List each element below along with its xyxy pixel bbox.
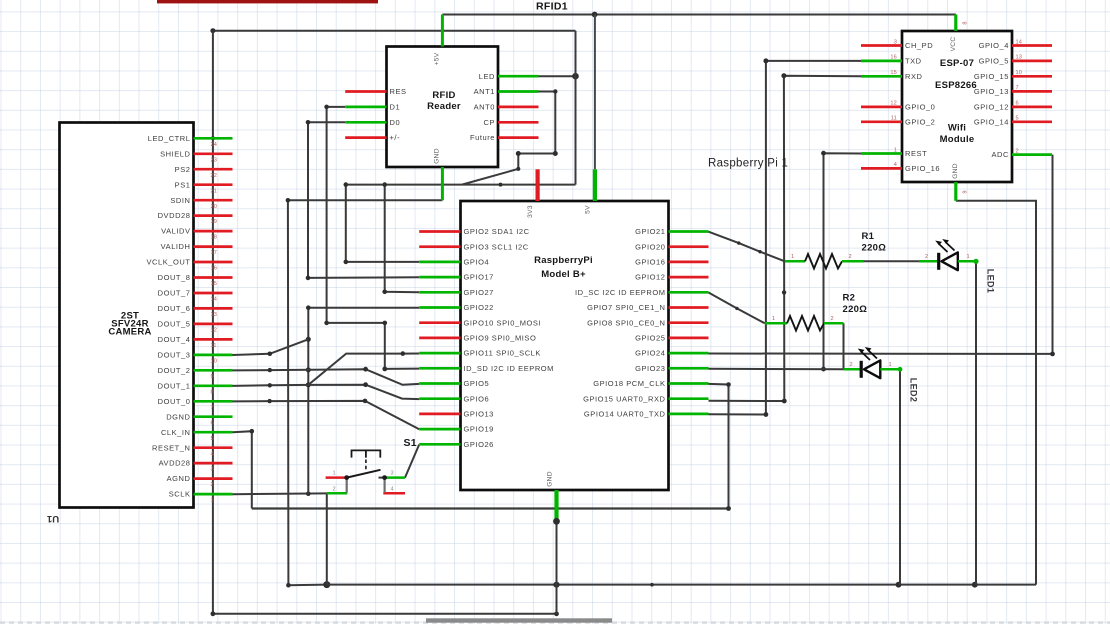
junction: ANT1 bend 3 bbox=[516, 151, 521, 156]
svg-text:24: 24 bbox=[211, 142, 218, 148]
LED LED1 bbox=[919, 252, 976, 270]
svg-text:1: 1 bbox=[889, 362, 892, 368]
junction: rail2 RPi GND bbox=[553, 582, 559, 588]
svg-text:DOUT_5: DOUT_5 bbox=[158, 320, 191, 329]
svg-text:GPIO12: GPIO12 bbox=[635, 273, 665, 282]
svg-text:2: 2 bbox=[831, 316, 834, 322]
svg-text:GPIO21: GPIO21 bbox=[635, 227, 665, 236]
svg-text:GPIO2 SDA1 I2C: GPIO2 SDA1 I2C bbox=[464, 227, 530, 236]
svg-text:DOUT_1: DOUT_1 bbox=[158, 381, 191, 390]
wire: +5V top rail (RFID +5V to ESP VCC) bbox=[442, 14, 955, 16]
wire: camera CLK_IN drop bbox=[233, 431, 252, 508]
svg-text:U1: U1 bbox=[46, 513, 59, 524]
svg-text:2: 2 bbox=[333, 486, 336, 492]
LED2 pin numbers bbox=[850, 362, 892, 368]
wire: S1 pin3 to RPi GPIO26 bbox=[405, 445, 419, 478]
camera U1 pins bbox=[147, 134, 233, 499]
wire: R2 drop to LED2 bbox=[843, 323, 845, 369]
wire: camera DOUT_3 to column bbox=[233, 339, 309, 355]
svg-text:GIPO10 SPI0_MOSI: GIPO10 SPI0_MOSI bbox=[464, 318, 542, 327]
svg-text:R2: R2 bbox=[843, 293, 856, 304]
svg-text:GPIO14 UART0_TXD: GPIO14 UART0_TXD bbox=[584, 410, 666, 419]
page tear texture (bottom edge) bbox=[0, 621, 1110, 623]
svg-text:1: 1 bbox=[333, 471, 336, 477]
ESP GND pin bbox=[952, 163, 959, 201]
svg-text:GPIO_0: GPIO_0 bbox=[905, 103, 935, 112]
svg-text:GND: GND bbox=[952, 163, 959, 179]
R2 value label bbox=[843, 293, 868, 316]
svg-text:220Ω: 220Ω bbox=[862, 243, 887, 254]
wire: RPi GPIO24 to ESP ADC bbox=[709, 155, 1053, 354]
svg-text:AGND: AGND bbox=[167, 474, 191, 483]
svg-text:D0: D0 bbox=[390, 118, 401, 127]
svg-text:22: 22 bbox=[211, 173, 218, 179]
camera U1 body bbox=[60, 123, 194, 508]
junction: rail2 LED1 bbox=[972, 582, 978, 588]
svg-text:21: 21 bbox=[211, 188, 218, 194]
svg-text:GPIO17: GPIO17 bbox=[464, 273, 494, 282]
svg-text:2: 2 bbox=[850, 362, 853, 368]
svg-text:DGND: DGND bbox=[166, 412, 190, 421]
wire: GPIO22 column bbox=[308, 308, 419, 494]
wire: rail 1 bbox=[252, 507, 729, 509]
wire: RPi GPIO23 to LED2 anode bbox=[709, 368, 844, 371]
wire: RFID LED to node bbox=[539, 75, 576, 77]
svg-text:LED: LED bbox=[479, 72, 495, 81]
svg-text:GPIO_5: GPIO_5 bbox=[979, 57, 1009, 66]
svg-text:GPIO20: GPIO20 bbox=[635, 242, 665, 251]
svg-text:9: 9 bbox=[963, 190, 969, 193]
svg-text:GPIO_14: GPIO_14 bbox=[974, 117, 1009, 126]
svg-text:ID_SD I2C ID EEPROM: ID_SD I2C ID EEPROM bbox=[464, 364, 554, 373]
svg-text:PS2: PS2 bbox=[175, 165, 191, 174]
svg-text:3: 3 bbox=[391, 471, 394, 477]
svg-text:VCLK_OUT: VCLK_OUT bbox=[147, 258, 191, 267]
LED LED2 bbox=[844, 360, 901, 378]
svg-text:Raspberry Pi 1: Raspberry Pi 1 bbox=[708, 158, 788, 170]
svg-text:DOUT_3: DOUT_3 bbox=[158, 351, 191, 360]
svg-text:GPIO26: GPIO26 bbox=[464, 440, 494, 449]
wire: branch to RPi GPIO27 bbox=[385, 185, 420, 293]
wire: ESP RXD to RPi GPIO15 bbox=[709, 76, 862, 401]
junction: ANT1 bend 4 bbox=[516, 167, 520, 171]
svg-text:LED1: LED1 bbox=[986, 269, 996, 294]
svg-text:PS1: PS1 bbox=[175, 180, 191, 189]
camera U1 pin numbers bbox=[211, 142, 218, 504]
svg-text:20: 20 bbox=[211, 204, 218, 210]
junction: RXD bendpoint bbox=[782, 290, 786, 294]
wire: camera DOUT_1 to RPi GPIO6 bbox=[233, 385, 420, 399]
ESP right pin numbers bbox=[1016, 39, 1023, 154]
svg-text:3: 3 bbox=[211, 467, 214, 473]
junction: RPi GND terminal bbox=[553, 518, 560, 525]
switch S1 actuator bbox=[352, 450, 381, 471]
wire: RPi GND drop to rail3 bbox=[556, 521, 558, 614]
svg-text:RES: RES bbox=[390, 87, 407, 96]
RFID reader body bbox=[387, 47, 499, 168]
svg-text:5: 5 bbox=[1016, 116, 1019, 122]
svg-text:CAMERA: CAMERA bbox=[108, 327, 151, 338]
svg-text:GPIO_16: GPIO_16 bbox=[905, 164, 940, 173]
svg-text:12: 12 bbox=[211, 328, 218, 334]
svg-text:GPIO_15: GPIO_15 bbox=[974, 72, 1009, 81]
svg-text:RXD: RXD bbox=[905, 72, 923, 81]
svg-text:18: 18 bbox=[211, 235, 218, 241]
svg-text:10: 10 bbox=[1016, 70, 1023, 76]
svg-text:ADC: ADC bbox=[992, 150, 1010, 159]
svg-text:GPIO25: GPIO25 bbox=[635, 334, 665, 343]
junction: V2-DOUT1 bbox=[306, 382, 311, 387]
svg-text:14: 14 bbox=[211, 297, 218, 303]
LED1 emission arrows bbox=[935, 239, 954, 252]
LED2 emission arrows bbox=[858, 347, 877, 360]
wire: ground rail 2 bbox=[327, 584, 1036, 586]
svg-text:GPIO9 SPI0_MISO: GPIO9 SPI0_MISO bbox=[464, 334, 537, 343]
svg-text:Reader: Reader bbox=[427, 101, 461, 112]
svg-text:GPIO22: GPIO22 bbox=[464, 303, 494, 312]
svg-text:GPIO8 SPI0_CE0_N: GPIO8 SPI0_CE0_N bbox=[587, 318, 665, 327]
RPi 3V3 pin bbox=[527, 169, 538, 218]
svg-text:11: 11 bbox=[211, 343, 217, 349]
junction: V2-DOUT3 bbox=[306, 337, 311, 342]
svg-text:S1: S1 bbox=[404, 437, 417, 449]
svg-text:GPIO_2: GPIO_2 bbox=[905, 117, 935, 126]
svg-text:2: 2 bbox=[1016, 148, 1019, 154]
wire: RPi GPIO21 to R1 bbox=[709, 232, 785, 262]
svg-text:1: 1 bbox=[967, 254, 970, 260]
wire: RFID D0 to RPi GPIO17 bbox=[308, 122, 419, 278]
svg-text:14: 14 bbox=[1016, 39, 1023, 45]
svg-text:DOUT_6: DOUT_6 bbox=[158, 304, 191, 313]
svg-text:+/-: +/- bbox=[390, 133, 401, 142]
wire: branch to RPi GPIO4 bbox=[346, 185, 419, 262]
junction: top rail to RPi 5V bbox=[592, 12, 598, 18]
wire: S1 pin2 drop bbox=[326, 493, 328, 584]
svg-text:TXD: TXD bbox=[905, 57, 922, 66]
svg-text:5V: 5V bbox=[585, 205, 592, 214]
svg-text:15: 15 bbox=[211, 281, 218, 287]
RFID left pins bbox=[345, 87, 406, 142]
svg-text:8: 8 bbox=[211, 389, 214, 395]
R1 value label bbox=[862, 231, 887, 254]
svg-text:VCC: VCC bbox=[950, 37, 957, 52]
svg-text:SCLK: SCLK bbox=[169, 490, 191, 499]
resistor R2 bbox=[765, 316, 844, 331]
svg-text:2: 2 bbox=[849, 254, 852, 260]
svg-text:GPIO16: GPIO16 bbox=[635, 258, 665, 267]
junction: ANT1 bend 1 bbox=[553, 89, 557, 93]
svg-text:DOUT_0: DOUT_0 bbox=[158, 397, 191, 406]
svg-text:DVDD28: DVDD28 bbox=[158, 211, 191, 220]
junction: LED node bbox=[572, 73, 579, 80]
svg-text:GPIO11 SPI0_SCLK: GPIO11 SPI0_SCLK bbox=[464, 349, 541, 358]
svg-text:ANT1: ANT1 bbox=[474, 87, 495, 96]
junction: ground rail node bbox=[323, 581, 330, 588]
ESP right pins bbox=[974, 41, 1052, 159]
svg-text:GPIO19: GPIO19 bbox=[464, 425, 494, 434]
svg-text:GPIO27: GPIO27 bbox=[464, 288, 494, 297]
wire: node run below RFID bbox=[346, 184, 576, 186]
svg-text:10: 10 bbox=[211, 359, 218, 365]
svg-text:DOUT_2: DOUT_2 bbox=[158, 366, 191, 375]
svg-text:CP: CP bbox=[483, 118, 495, 127]
svg-text:ANT0: ANT0 bbox=[474, 103, 495, 112]
svg-text:RESET_N: RESET_N bbox=[152, 443, 190, 452]
svg-text:19: 19 bbox=[211, 219, 218, 225]
switch S1 pins bbox=[326, 478, 405, 494]
svg-text:GPIO24: GPIO24 bbox=[635, 349, 665, 358]
svg-text:1: 1 bbox=[894, 147, 897, 153]
svg-text:GPIO_4: GPIO_4 bbox=[979, 41, 1009, 50]
wire: camera DOUT_0 to RPi GPIO19 bbox=[233, 401, 420, 429]
RPi left pins bbox=[419, 227, 554, 449]
svg-text:4: 4 bbox=[391, 486, 394, 492]
off-page net stub (dark red, top edge) bbox=[157, 0, 378, 3]
R1 pin numbers bbox=[791, 254, 852, 260]
svg-text:GND: GND bbox=[434, 148, 441, 164]
wire: LED node to camera LED_CTRL (top run) bbox=[213, 30, 576, 32]
svg-text:6: 6 bbox=[211, 420, 214, 426]
svg-text:13: 13 bbox=[1016, 55, 1023, 61]
wire: RFID ANT1 route bbox=[462, 92, 555, 185]
svg-text:DOUT_4: DOUT_4 bbox=[158, 335, 191, 344]
svg-text:1: 1 bbox=[791, 254, 794, 260]
svg-text:GPIO13: GPIO13 bbox=[464, 410, 494, 419]
svg-text:8: 8 bbox=[963, 21, 969, 24]
svg-text:Wifi: Wifi bbox=[948, 123, 966, 134]
svg-text:ESP8266: ESP8266 bbox=[935, 80, 977, 91]
svg-text:R1: R1 bbox=[862, 231, 875, 242]
svg-text:9: 9 bbox=[211, 374, 214, 380]
svg-text:AVDD28: AVDD28 bbox=[159, 459, 191, 468]
svg-text:DOUT_7: DOUT_7 bbox=[158, 289, 191, 298]
RFID right pins bbox=[470, 72, 538, 142]
svg-text:Model B+: Model B+ bbox=[541, 269, 586, 280]
svg-text:GPIO23: GPIO23 bbox=[635, 364, 665, 373]
svg-text:LED_CTRL: LED_CTRL bbox=[148, 134, 191, 143]
svg-text:GPIO15 UART0_RXD: GPIO15 UART0_RXD bbox=[583, 394, 665, 403]
svg-text:SHIELD: SHIELD bbox=[160, 149, 190, 158]
wire: camera SCLK to S1 pin2 bbox=[233, 492, 327, 495]
svg-text:VALIDV: VALIDV bbox=[161, 227, 190, 236]
wire: RFID D1 to RPi ID_SD bbox=[327, 107, 420, 369]
svg-text:+5V: +5V bbox=[434, 52, 441, 65]
svg-text:CLK_IN: CLK_IN bbox=[161, 428, 191, 437]
svg-text:11: 11 bbox=[891, 116, 897, 122]
ESP8266 body bbox=[902, 31, 1012, 182]
svg-text:15: 15 bbox=[890, 70, 897, 76]
resistor R1 bbox=[785, 254, 864, 269]
svg-text:5: 5 bbox=[211, 436, 214, 442]
svg-text:RFID: RFID bbox=[432, 90, 455, 101]
junction: SCLK / V2 bbox=[306, 491, 311, 496]
svg-text:2: 2 bbox=[925, 254, 928, 260]
off-page bus stub (gray bar, bottom) bbox=[426, 618, 612, 622]
svg-text:220Ω: 220Ω bbox=[843, 304, 868, 315]
svg-text:1: 1 bbox=[772, 316, 775, 322]
wire: LED2 cathode drop bbox=[899, 369, 901, 584]
svg-text:RFID1: RFID1 bbox=[536, 1, 568, 13]
svg-text:GPIO4: GPIO4 bbox=[464, 258, 490, 267]
RPi right pins bbox=[575, 227, 708, 418]
Raspberry Pi body bbox=[461, 201, 669, 490]
svg-text:SDIN: SDIN bbox=[170, 196, 190, 205]
junction: ANT1 bend 2 bbox=[553, 151, 558, 156]
svg-text:D1: D1 bbox=[390, 103, 401, 112]
svg-text:12: 12 bbox=[890, 101, 897, 107]
wire: LED_CTRL drop (left vertical) bbox=[212, 31, 214, 614]
svg-text:GPIO_13: GPIO_13 bbox=[974, 87, 1009, 96]
switch S1 pin numbers bbox=[333, 471, 394, 493]
svg-text:3V3: 3V3 bbox=[527, 205, 534, 218]
wire: ESP REST drop bbox=[824, 153, 862, 369]
ESP left pin numbers bbox=[890, 39, 897, 168]
RFID +5V pin bbox=[434, 15, 443, 66]
svg-text:4: 4 bbox=[894, 162, 897, 168]
svg-text:GPIO6: GPIO6 bbox=[464, 394, 490, 403]
svg-text:GND: GND bbox=[547, 471, 554, 487]
wire: rail2 to ESP GND bbox=[956, 201, 1036, 585]
junction: rail2 bend bbox=[650, 583, 654, 587]
wire: camera DOUT_2 to RPi GPIO5 bbox=[233, 369, 420, 385]
svg-text:16: 16 bbox=[211, 266, 218, 272]
svg-text:2: 2 bbox=[211, 482, 214, 488]
RPi 5V pin bbox=[585, 169, 595, 214]
wire: branch to RPi GPIO11 bbox=[308, 354, 419, 385]
ESP left pins bbox=[861, 41, 940, 173]
svg-text:DOUT_8: DOUT_8 bbox=[158, 273, 191, 282]
wire: RPi 5V riser bbox=[594, 15, 596, 170]
wire: LED node vertical bbox=[575, 31, 577, 185]
wire: RFID GND to ground rail bbox=[288, 200, 443, 585]
svg-text:3: 3 bbox=[894, 39, 897, 45]
svg-text:ID_SC I2C ID EEPROM: ID_SC I2C ID EEPROM bbox=[575, 288, 665, 297]
svg-text:13: 13 bbox=[211, 312, 218, 318]
svg-text:6: 6 bbox=[1016, 101, 1019, 107]
wire: ESP TXD to RPi GPIO14 bbox=[709, 61, 862, 415]
svg-text:17: 17 bbox=[211, 250, 218, 256]
svg-text:7: 7 bbox=[211, 405, 214, 411]
wire: LED1 cathode drop bbox=[975, 261, 977, 584]
RPi GND pin bbox=[547, 471, 557, 521]
svg-text:LED2: LED2 bbox=[909, 378, 919, 403]
svg-text:Future: Future bbox=[470, 133, 495, 142]
switch S1 contacts and lever bbox=[344, 470, 387, 493]
svg-text:16: 16 bbox=[890, 55, 897, 61]
LED1 pin numbers bbox=[925, 254, 970, 260]
junction: V2-DOUT2 bbox=[306, 367, 311, 372]
svg-text:GPIO7 SPI0_CE1_N: GPIO7 SPI0_CE1_N bbox=[587, 303, 665, 312]
svg-text:4: 4 bbox=[211, 451, 214, 457]
R2 pin numbers bbox=[772, 316, 834, 322]
svg-text:7: 7 bbox=[1016, 85, 1019, 91]
svg-text:23: 23 bbox=[211, 157, 218, 163]
wire: bottom rail 3 bbox=[213, 613, 557, 615]
svg-text:REST: REST bbox=[905, 149, 927, 158]
svg-text:RaspberryPi: RaspberryPi bbox=[534, 255, 593, 266]
svg-text:GPIO3 SCL1 I2C: GPIO3 SCL1 I2C bbox=[464, 242, 529, 251]
svg-text:Module: Module bbox=[940, 134, 975, 145]
RFID GND pin bbox=[434, 148, 443, 200]
svg-text:1: 1 bbox=[211, 498, 214, 504]
wire: R1 to LED1 bbox=[864, 260, 920, 262]
wire: RPi ID_SC to R2 bbox=[709, 293, 765, 324]
junction: rail2 LED2 bbox=[896, 582, 902, 588]
svg-text:VALIDH: VALIDH bbox=[161, 242, 191, 251]
svg-text:CH_PD: CH_PD bbox=[905, 41, 933, 50]
svg-text:ESP-07: ESP-07 bbox=[940, 58, 974, 69]
ESP VCC pin bbox=[950, 15, 957, 52]
svg-text:GPIO_12: GPIO_12 bbox=[974, 103, 1009, 112]
svg-text:GPIO18 PCM_CLK: GPIO18 PCM_CLK bbox=[593, 379, 665, 388]
wire: RPi GPIO18 drop to rail1 bbox=[709, 384, 729, 509]
svg-text:GPIO5: GPIO5 bbox=[464, 379, 490, 388]
